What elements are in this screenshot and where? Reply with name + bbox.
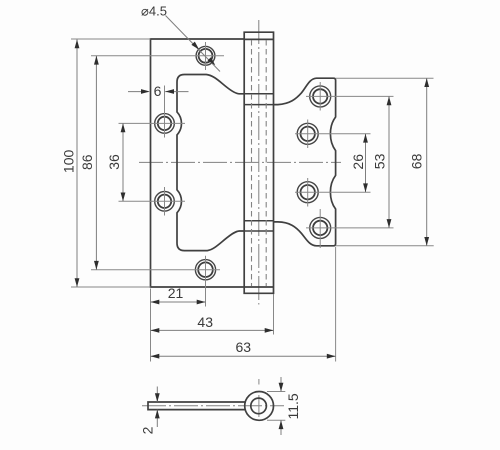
extension right leaf right edge down (63 dim) (335, 247, 337, 362)
label d4.5 leader (141, 3, 220, 71)
svg-text:100: 100 (61, 150, 77, 174)
barrel joint line top upper (244, 93, 273, 95)
barrel joint line bottom upper (244, 220, 273, 222)
extension leaf bottom edge left (100 dim) (71, 286, 151, 288)
hole B left (155, 192, 175, 212)
hole R4 (310, 217, 331, 238)
dimension 6 (128, 83, 189, 99)
svg-text:11.5: 11.5 (285, 393, 301, 419)
svg-text:86: 86 (79, 154, 95, 170)
dimension 36 (106, 123, 125, 201)
dimension 86 (79, 56, 99, 270)
dimension 53 (371, 96, 391, 228)
extension right leaf bottom edge (68 dim) (336, 245, 434, 247)
barrel joint line top lower (244, 104, 273, 106)
hole R2 (297, 123, 318, 144)
crosshair hole R1 with 53 extension (306, 82, 394, 111)
barrel body (244, 32, 273, 293)
crosshair hole A with 36 extension and 6 extension (119, 86, 186, 138)
svg-text:53: 53 (371, 153, 387, 169)
extension left leaf left edge down (21/43/63 dims) (150, 289, 152, 362)
extension leaf top edge left (100 dim) (71, 38, 151, 40)
dimension 100 (61, 40, 80, 288)
svg-text:2: 2 (139, 426, 155, 434)
svg-text:6: 6 (154, 83, 162, 99)
profile ring outer (245, 392, 274, 421)
crosshair hole B with 36 extension (119, 187, 186, 216)
left leaf outline (151, 39, 245, 287)
svg-text:43: 43 (197, 314, 213, 330)
svg-text:63: 63 (236, 339, 252, 355)
extension right leaf top edge (68 dim) (336, 77, 434, 79)
barrel hidden line left (251, 40, 253, 286)
barrel joint line bottom lower (244, 230, 273, 232)
svg-text:21: 21 (168, 285, 184, 301)
hole top-left (d4.5) (196, 46, 215, 65)
hole R3 (297, 182, 318, 203)
dimension 43 (151, 314, 274, 333)
barrel hidden line right (265, 40, 267, 286)
hole A left (155, 114, 175, 134)
crosshair hole R3 with 26 extension (295, 178, 371, 207)
profile ring inner (251, 398, 267, 414)
crosshair hole R2 with 26 extension (295, 120, 371, 149)
barrel top cap line (244, 38, 273, 40)
dimension 21 (151, 285, 206, 305)
dimension 26 (350, 134, 368, 192)
vertical centerline barrel (258, 20, 260, 305)
right leaf outline (274, 78, 336, 246)
profile ring vertical centerline (258, 379, 260, 417)
crosshair hole bottom-left with 86 + 21 extensions (91, 256, 220, 307)
profile bar (148, 402, 246, 410)
dimension 11.5 (267, 377, 301, 435)
dimension 68 (409, 78, 429, 246)
crosshair hole R4 with 53 extension (306, 209, 394, 248)
svg-text:36: 36 (106, 154, 122, 170)
extension barrel right edge down (43 dim) (273, 294, 275, 335)
svg-text:26: 26 (350, 154, 366, 170)
barrel bottom cap line (244, 286, 273, 288)
svg-text:⌀4.5: ⌀4.5 (141, 3, 167, 18)
hole R1 (310, 86, 331, 107)
crosshair hole top-left with 86 extension (91, 42, 224, 70)
horizontal centerline main view (139, 161, 341, 163)
svg-text:68: 68 (409, 153, 425, 169)
profile view centerline (142, 405, 284, 407)
dimension 2 (139, 387, 159, 435)
dimension 63 (151, 339, 336, 358)
left leaf cutout (177, 75, 244, 251)
hole bottom-left (195, 260, 215, 280)
